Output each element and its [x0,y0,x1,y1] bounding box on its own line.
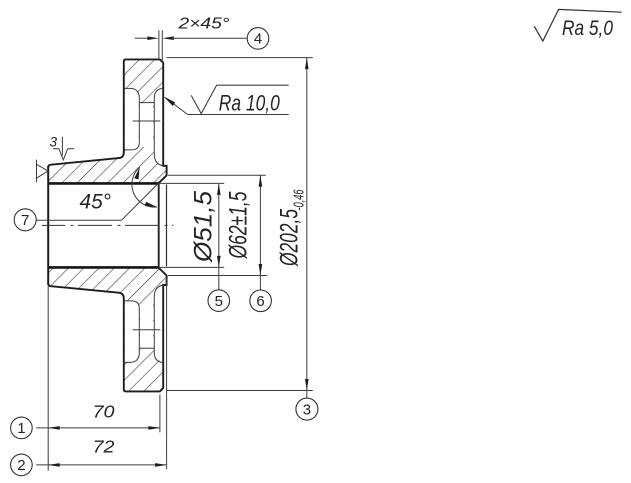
bore chamfer circle edge (background) [158,183,160,267]
lower flange web window (white) [140,298,153,347]
balloon 5 stem [218,267,220,289]
upper web right edge + fillets [154,88,163,165]
balloon 7 [14,209,36,231]
lower window edge line [133,329,161,331]
svg-text:Ra 5,0: Ra 5,0 [562,17,613,40]
bottom extension line x72 [166,278,168,470]
bottom extension line left [47,286,49,471]
upper outline [48,59,166,183]
balloon 6 [250,290,272,312]
balloon 6 stem [259,276,261,291]
hub left face [47,167,49,285]
balloon 4 [247,28,269,50]
bottom extension line x70 [159,395,161,433]
lower web left edge + fillets [124,301,140,363]
grade 3 mark stem [61,137,63,156]
dim 70 line [36,427,160,429]
hub upper section (hatched) [48,59,166,183]
dia202,5 extension lines [167,57,313,59]
lower flange right window (white) [154,286,162,361]
svg-text:3: 3 [303,401,311,418]
dia62 dimension line [259,175,261,275]
svg-text:72: 72 [93,437,115,457]
svg-text:45°: 45° [80,190,112,213]
upper web left edge + fillets [124,88,140,149]
chamfer dim arrows [135,37,150,39]
Ra 10,0 leader arrow [165,98,188,115]
Ra 10,0 check symbol [191,85,289,113]
svg-text:Ø51,5: Ø51,5 [190,191,218,263]
dia202,5 dimension line [306,58,308,391]
lower web right edge + fillets [154,285,163,362]
Ra 5,0 roughness symbol [534,9,621,41]
dim 72 line [36,464,166,466]
chamfer extension 45deg line [122,183,159,220]
balloon 2 [11,454,33,476]
svg-text:70: 70 [93,402,115,422]
balloon 4 leader [171,37,247,39]
svg-text:4: 4 [254,30,262,47]
45deg arc with arrows [132,167,157,207]
svg-text:-0,46: -0,46 [292,189,308,211]
svg-text:2×45°: 2×45° [177,15,229,32]
upper flange web window (white) [140,103,153,152]
grade 3 mark vee [53,149,74,160]
svg-text:Ra 10,0: Ra 10,0 [219,90,281,115]
left face roughness tick [37,160,49,183]
part centerline (dash-dot) [42,224,173,226]
lower flange left window (white) [125,301,139,361]
balloon 5 [208,290,230,312]
svg-text:1: 1 [17,420,25,437]
svg-text:7: 7 [21,212,29,229]
dia51,5 extension lines [159,182,224,184]
upper flange left window (white) [125,89,139,149]
upper flange right window (white) [154,90,162,165]
dia62 extension lines [168,174,266,176]
lower web fillet tangent line [139,347,154,349]
svg-text:Ø202,5: Ø202,5 [276,209,304,267]
bore top edge [48,182,158,185]
svg-text:Ø62±1,5: Ø62±1,5 [225,191,253,259]
lower outline [48,267,166,391]
boss face opening edge (background) [166,184,168,266]
balloon 1 [11,417,33,439]
svg-text:6: 6 [256,293,264,310]
Ra 10,0 shelf [188,114,289,116]
svg-text:2: 2 [17,457,25,474]
hub lower section (hatched) [48,267,166,391]
svg-text:5: 5 [215,293,223,310]
balloon 7 leader [36,219,122,221]
chamfer extension lines [158,30,160,59]
svg-text:3: 3 [50,134,58,149]
balloon 3 stem [306,391,308,399]
balloon 3 [296,398,318,420]
upper window edge line [133,120,161,122]
dia51,5 dimension line [218,183,220,267]
bore bottom edge [48,266,158,269]
upper web fillet tangent line [139,102,154,104]
